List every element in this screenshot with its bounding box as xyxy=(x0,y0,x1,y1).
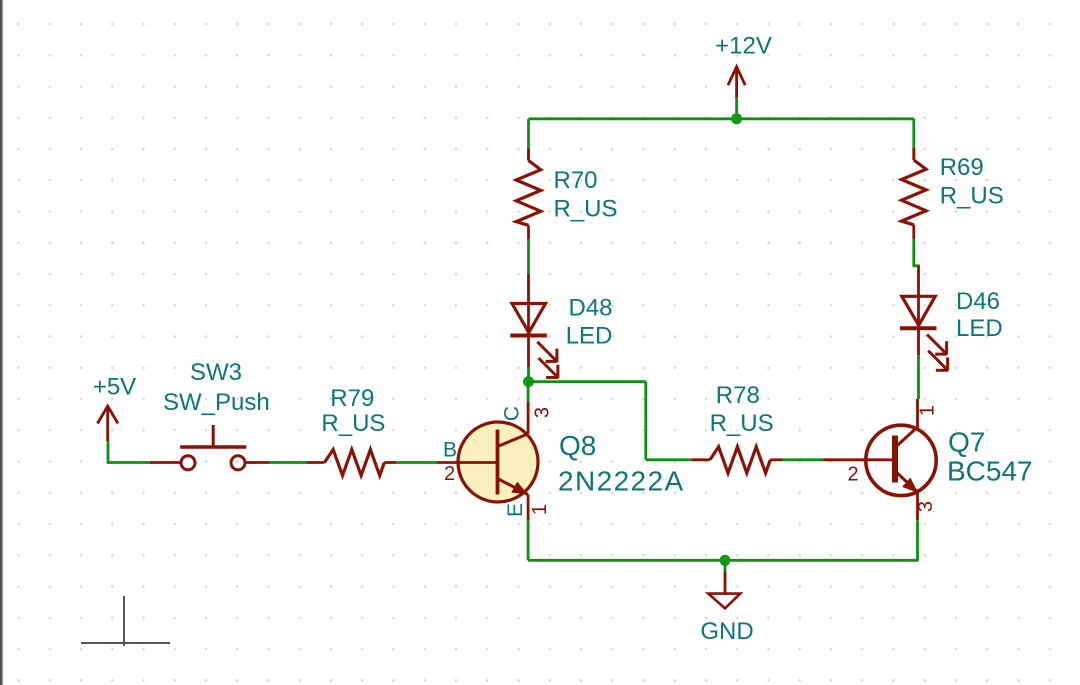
junction at GND tap xyxy=(720,555,731,566)
svg-text:SW_Push: SW_Push xyxy=(163,389,270,416)
wire D46 to Q7 collector xyxy=(917,355,920,399)
wire R69 to D46 (with jog) xyxy=(914,239,919,268)
svg-text:+5V: +5V xyxy=(93,374,136,401)
wire GND stem xyxy=(724,560,727,572)
svg-text:Q7: Q7 xyxy=(948,426,985,457)
wire R79 to Q8 base xyxy=(396,461,437,464)
wire branch to R78 xyxy=(646,458,692,461)
wire junction to Q8 collector xyxy=(527,382,530,402)
diode D46 LED xyxy=(900,266,1003,371)
transistor Q7 BC547 xyxy=(824,399,1033,520)
wire D48 to junction xyxy=(527,367,530,382)
power +5V xyxy=(93,374,136,442)
switch SW3 SW_Push xyxy=(150,359,270,470)
wire top-left drop to R70 xyxy=(527,119,530,160)
ground GND xyxy=(700,572,753,646)
wire junction to R78 branch (horizontal) xyxy=(529,380,646,383)
svg-text:R_US: R_US xyxy=(940,183,1004,210)
wire SW3 to R79 xyxy=(270,461,307,464)
svg-text:+12V: +12V xyxy=(715,33,772,60)
svg-text:R_US: R_US xyxy=(554,196,618,223)
svg-text:R_US: R_US xyxy=(321,410,385,437)
wire R70 to D48 xyxy=(527,239,530,274)
wire R78 to Q7 base xyxy=(783,458,824,461)
svg-text:E: E xyxy=(504,503,527,517)
svg-text:LED: LED xyxy=(566,322,613,349)
junction at +12V tap xyxy=(731,113,742,124)
svg-text:BC547: BC547 xyxy=(947,455,1033,486)
svg-text:1: 1 xyxy=(529,504,551,515)
wire bottom bus xyxy=(528,559,918,562)
resistor R69 xyxy=(902,148,1004,239)
svg-text:R_US: R_US xyxy=(710,410,774,437)
svg-text:C: C xyxy=(501,406,524,421)
svg-text:R78: R78 xyxy=(716,382,760,409)
diode D48 LED xyxy=(510,274,612,378)
resistor R79 xyxy=(307,385,396,476)
svg-text:GND: GND xyxy=(700,618,753,645)
wire +5V to SW3 xyxy=(108,441,150,463)
svg-text:R70: R70 xyxy=(554,167,598,194)
svg-text:D48: D48 xyxy=(569,295,613,322)
power +12V xyxy=(715,33,772,98)
resistor R70 xyxy=(516,149,617,240)
svg-text:2: 2 xyxy=(848,464,859,486)
svg-text:2N2222A: 2N2222A xyxy=(558,466,685,497)
junction at D48 / Q8 collector xyxy=(523,376,534,387)
transistor Q8 2N2222A xyxy=(437,402,685,520)
wire branch drop xyxy=(644,382,647,460)
svg-text:B: B xyxy=(443,439,457,462)
svg-text:R79: R79 xyxy=(330,385,374,412)
svg-text:SW3: SW3 xyxy=(190,359,242,386)
sheet origin marker xyxy=(81,596,170,646)
wire Q7 emitter down xyxy=(916,520,919,560)
svg-text:Q8: Q8 xyxy=(559,430,596,461)
wire top bus from R70 column to R69 column xyxy=(529,117,914,120)
wire +12V stem xyxy=(735,95,738,119)
svg-text:R69: R69 xyxy=(940,154,984,181)
svg-text:D46: D46 xyxy=(956,288,1000,315)
svg-text:3: 3 xyxy=(532,407,554,418)
svg-text:1: 1 xyxy=(917,405,939,416)
wire Q8 emitter down xyxy=(527,520,530,560)
svg-text:3: 3 xyxy=(915,501,937,512)
svg-text:LED: LED xyxy=(956,315,1003,342)
resistor R78 xyxy=(692,382,783,473)
wire top-right drop to R69 xyxy=(912,119,915,160)
svg-text:2: 2 xyxy=(444,463,455,485)
